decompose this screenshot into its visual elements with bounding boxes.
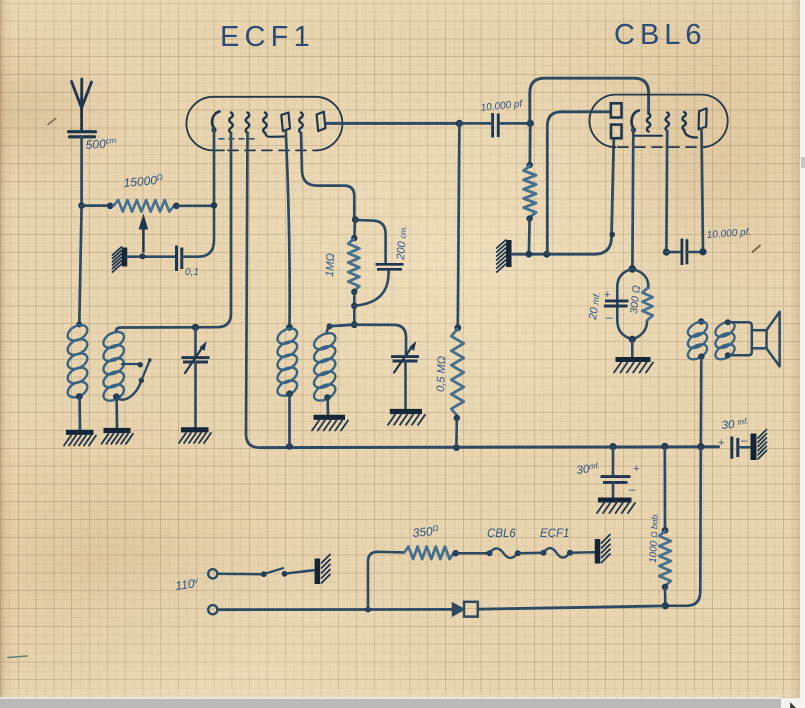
resistor R1 15000ohm <box>114 200 175 212</box>
wire R1 to cathode node <box>176 204 214 207</box>
wire between heaters <box>518 552 543 555</box>
resistor R 1000ohm <box>659 531 671 586</box>
svg-text:1000 Ω bob.: 1000 Ω bob. <box>648 512 661 563</box>
node heater ECF1 left <box>541 550 547 556</box>
resistor R 0,5Mohm <box>451 329 463 416</box>
wire coil4 to ground <box>326 397 329 414</box>
wire HT bus <box>262 445 719 449</box>
wire HT down right <box>667 447 701 606</box>
wire to CBL6 heater <box>456 552 489 555</box>
U1 g3 internal tie <box>265 133 286 137</box>
C-var1 arrow <box>185 341 207 373</box>
node 200cm bottom branch <box>351 303 357 309</box>
node antenna/R junction <box>78 202 85 209</box>
wire bias to ground <box>631 339 634 357</box>
ground bar (L2) <box>102 431 134 444</box>
wire 30mF-1 drop <box>612 447 615 476</box>
svg-text:CBL6: CBL6 <box>614 19 707 51</box>
wire secondary to speaker bottom <box>728 348 752 356</box>
terminal mains lower <box>208 605 217 614</box>
wire to cap <box>459 122 492 125</box>
wire 1M link <box>353 220 356 238</box>
node 1M top <box>352 216 359 223</box>
U1 grid g1 squiggle <box>229 113 233 133</box>
node R1 left <box>107 203 114 210</box>
U1 pentode grid squiggle <box>299 113 303 133</box>
svg-text:110v: 110v <box>174 576 200 593</box>
wire C-var1 to ground <box>194 362 197 428</box>
wire loop to upper diode <box>547 112 610 254</box>
capacitor C 200cm <box>376 264 404 269</box>
capacitor C 30mF-2 <box>732 437 738 459</box>
ground bar (cathode bias) <box>614 360 653 373</box>
potentiometer wiper arrow <box>139 214 149 252</box>
terminal mains upper <box>208 569 217 578</box>
stray mark bottom-left <box>8 656 27 658</box>
ground bar (30mF-2) <box>754 430 767 461</box>
wire plate output <box>326 122 459 125</box>
node cathode bias bottom <box>629 336 636 343</box>
svg-text:1MΩ: 1MΩ <box>324 253 337 277</box>
wire 30mF-1 to ground <box>612 482 615 497</box>
U1 internal dashes <box>219 138 258 140</box>
node bus/30mF <box>609 443 616 450</box>
U1 cathode lead <box>213 130 216 206</box>
U2 plate flag <box>699 108 707 129</box>
wire ground to wiper to C 0,1 <box>127 255 176 258</box>
wire node down to grid leak <box>529 123 532 164</box>
node coil1 top <box>76 322 82 328</box>
U1 grid g2 squiggle <box>246 113 250 133</box>
svg-text:10.000 pf: 10.000 pf <box>480 99 524 114</box>
node grid top cap <box>527 120 534 127</box>
wire coil4 top link <box>327 325 355 334</box>
node 350 right <box>452 550 458 556</box>
wire secondary to speaker top <box>728 322 752 330</box>
node coil4 bottom <box>324 394 330 400</box>
chassis bar (mains) <box>317 555 330 585</box>
wire R1 left lead <box>82 204 111 207</box>
node heater CBL6 right <box>515 550 521 556</box>
wire screen drop to R1000 <box>663 446 666 529</box>
tube U1 ECF1 envelope <box>186 97 342 151</box>
U2 screen lead down <box>665 131 668 252</box>
U1 g2 lead down to bus <box>246 133 262 448</box>
wire 1M node to h-bus <box>353 306 356 324</box>
capacitor C-var2 <box>391 357 419 361</box>
wave-switch tap wire <box>122 363 138 365</box>
svg-text:350Ω: 350Ω <box>412 524 439 540</box>
transformer secondary coil <box>713 319 737 363</box>
node cathode/R1 <box>211 202 218 209</box>
capacitor C-ant 500cm <box>69 132 96 137</box>
U2 internal tie <box>634 135 662 137</box>
U1 pentode grid lead <box>301 133 354 219</box>
svg-text:20 mf.: 20 mf. <box>587 291 603 321</box>
node 1M zig top <box>351 235 357 241</box>
ground bar (30mF-1) <box>597 500 635 513</box>
wave-switch lever <box>118 358 152 400</box>
wire ground horizontal <box>512 139 614 254</box>
svg-text:30 mf.: 30 mf. <box>721 417 749 432</box>
node R1000 top <box>662 527 669 534</box>
wire mains lower <box>218 608 452 611</box>
wire 200cm top branch <box>355 220 385 264</box>
svg-text:0,5 MΩ: 0,5 MΩ <box>435 356 448 392</box>
node primary bottom <box>698 353 704 359</box>
node bus/coil3 <box>286 443 293 450</box>
ground bar (C-var1) <box>179 430 211 443</box>
U1 grid g3 squiggle <box>263 113 267 133</box>
node bus/0.5M <box>453 444 460 451</box>
coil L3 <box>275 325 300 399</box>
wire 30mF-2 link <box>739 446 751 449</box>
capacitor C 0,1 <box>177 246 182 272</box>
switch S1 <box>261 568 314 577</box>
coil L2 tuned <box>101 329 127 404</box>
rectifier D1 <box>453 602 478 617</box>
node tuning <box>192 324 199 331</box>
U2 diode anode lower (square) <box>611 125 622 139</box>
U2 grid squiggle (top cap) <box>647 114 650 132</box>
svg-text:200 cm.: 200 cm. <box>395 225 409 261</box>
node R-leak bottom <box>526 215 532 221</box>
wire coil2 to ground <box>115 397 118 428</box>
U2 g3 tie to plate lead <box>684 130 697 138</box>
node coil2 bottom <box>113 393 120 400</box>
wire C 0,1 to cathode <box>182 206 214 257</box>
resistor R grid-leak <box>524 166 536 217</box>
node bus/1000ohm <box>661 443 668 450</box>
node tap fixed <box>138 362 143 367</box>
ground bar (C-var2) <box>388 412 425 425</box>
svg-text:ECF1: ECF1 <box>220 21 315 53</box>
wire R1000 to bottom bus <box>664 587 667 605</box>
node bus/primary <box>697 443 704 450</box>
capacitor C 20mF <box>604 301 629 306</box>
svg-text:15000Ω: 15000Ω <box>123 173 164 190</box>
wire 1M bottom <box>353 292 356 305</box>
wire plate node down <box>458 123 460 327</box>
wire coil2 top from tuning node <box>116 327 197 332</box>
node 0.5M top <box>454 324 461 331</box>
ground bar (CBL6 grid return) <box>497 240 509 272</box>
wire antenna down <box>79 137 81 324</box>
capacitor C 30mF-1 <box>601 477 631 483</box>
node R-leak top <box>527 162 533 168</box>
U2 diode anode upper (square) <box>611 103 622 117</box>
wire 0.5M to bus <box>455 418 458 447</box>
node diode lead kink <box>609 232 615 238</box>
node mid h-bus <box>351 321 358 328</box>
heater ECF1 <box>544 548 570 558</box>
wire heater branch riser <box>368 552 403 610</box>
capacitor C-var1 <box>182 358 210 362</box>
ground bar left (bias) <box>113 247 125 272</box>
antenna <box>72 79 92 130</box>
U1 g1 lead down <box>197 133 232 327</box>
node heater branch <box>365 607 371 613</box>
node secondary top <box>725 319 731 325</box>
C-var2 arrow <box>394 341 416 373</box>
coil L4 <box>311 330 338 404</box>
svg-text:CBL6: CBL6 <box>487 528 516 540</box>
node 1M zig bottom <box>351 289 357 295</box>
wire mid h-bus <box>330 325 407 356</box>
U1 pentode plate flag <box>317 112 326 131</box>
svg-text:30mf.: 30mf. <box>576 461 601 477</box>
node heater ECF1 right <box>567 550 573 556</box>
svg-text:+: + <box>604 289 610 301</box>
capacitor C 10000pF (1st) <box>493 113 499 138</box>
stray mark top-left <box>48 119 56 125</box>
wire C2 to plate lead <box>688 251 703 254</box>
chassis bar (heater) <box>598 535 611 564</box>
wire bias oval <box>617 269 648 339</box>
svg-text:0,1: 0,1 <box>185 267 199 278</box>
svg-text:–: – <box>741 433 748 447</box>
wire coil1 to ground <box>78 397 81 431</box>
wire R-leak to ground wire <box>528 219 531 254</box>
resistor R 350ohm <box>404 547 454 559</box>
node plate out <box>456 120 463 127</box>
wire 200cm bottom branch <box>354 270 388 306</box>
wire screen to C2 <box>666 251 681 254</box>
U2 plate lead down <box>702 129 704 251</box>
wire coil3 to bus <box>288 394 291 446</box>
node primary top <box>698 318 704 324</box>
ground bar (L4) <box>312 417 348 430</box>
svg-text:10.000 pf.: 10.000 pf. <box>706 227 751 241</box>
node 0.5M bottom <box>454 415 460 421</box>
U2 cathode lead <box>631 130 635 268</box>
node R1 right <box>173 203 180 210</box>
wire to switch <box>218 573 262 576</box>
svg-text:500cm: 500cm <box>85 136 117 152</box>
node gnd/loop <box>543 251 550 258</box>
node screen/C2 <box>663 249 670 256</box>
svg-text:–: – <box>629 482 636 496</box>
stray pen mark <box>753 246 761 253</box>
resistor R 1Mohm <box>348 239 359 291</box>
node coil3 top <box>286 324 293 331</box>
svg-text:ECF1: ECF1 <box>540 528 569 540</box>
node coil3 bottom <box>286 390 293 397</box>
node coil1 bottom <box>76 393 83 400</box>
wire cap to node <box>499 122 530 125</box>
wire C-var2 to ground <box>404 361 407 409</box>
U1 cathode hook <box>211 112 219 133</box>
transformer primary coil <box>685 319 709 363</box>
coil L1 antenna <box>65 322 90 401</box>
node R1000 bottom <box>662 584 668 590</box>
U2 g3 squiggle <box>683 112 686 130</box>
wire diode to bus <box>478 606 666 609</box>
wire top-cap riser <box>530 78 649 123</box>
node cathode bias top <box>629 265 637 273</box>
ground bar (L1) <box>64 432 96 445</box>
node gnd/R-leak <box>526 251 533 258</box>
node wiper <box>140 253 146 259</box>
U2 cathode hook <box>631 111 639 133</box>
U1 triode anode flag <box>281 113 290 132</box>
node coil4 top <box>327 323 333 329</box>
node plate/C2 <box>699 248 706 255</box>
U1 anode lead to coil <box>286 132 290 327</box>
resistor R 300ohm <box>642 288 652 320</box>
node secondary bottom <box>725 352 731 358</box>
heater CBL6 <box>490 548 518 558</box>
U2 screen squiggle <box>666 113 669 131</box>
svg-text:–: – <box>606 310 613 324</box>
node bottom bus junction <box>662 602 669 609</box>
wire heater to chassis <box>570 551 595 554</box>
node heater CBL6 left <box>487 550 493 556</box>
svg-text:300 Ω: 300 Ω <box>628 285 643 315</box>
svg-text:+: + <box>718 437 724 449</box>
wire primary down to bus <box>699 357 702 447</box>
speaker LS1 <box>752 312 780 367</box>
capacitor C 10000pF (2nd) <box>682 239 687 265</box>
tube U2 CBL6 envelope <box>590 95 728 148</box>
svg-text:+: + <box>633 463 639 475</box>
capacitor C-var1 drop <box>194 327 197 356</box>
